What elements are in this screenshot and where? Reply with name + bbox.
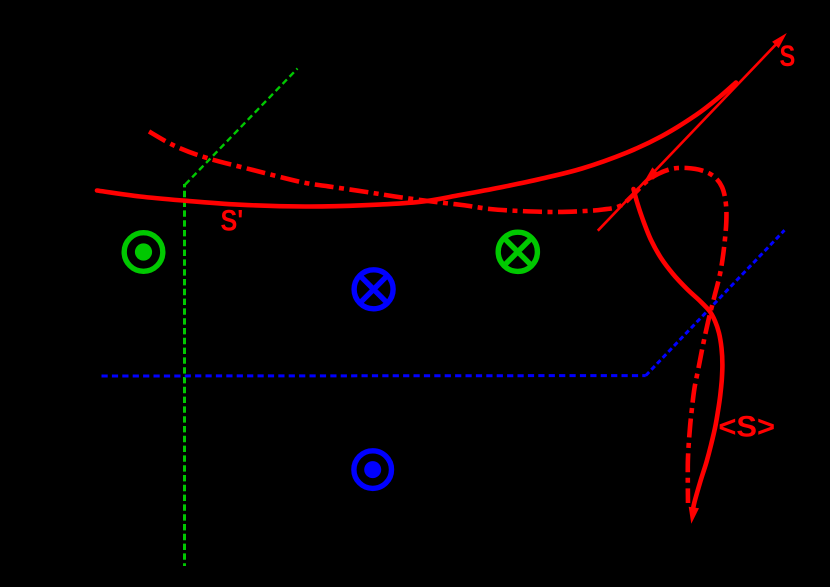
svg-text:S': S' — [221, 204, 244, 238]
svg-text:<S>: <S> — [718, 410, 775, 443]
node: arrowhead at bottom of right red curve — [689, 507, 699, 524]
wire: blue dashed oblique ray — [646, 230, 785, 375]
node: arrowhead on dash-dot curve pointing lower-left — [643, 167, 660, 184]
wire: green dashed oblique ray (incident ray) — [185, 69, 297, 185]
wire: green dashed vertical line — [183, 184, 186, 566]
node: blue circled-dot symbol (field out of page) — [354, 451, 392, 489]
wire: red straight ray line S — [598, 40, 780, 231]
svg-text:S: S — [780, 39, 796, 72]
node: arrowhead of ray S — [772, 33, 787, 48]
wire: red solid curve descending on right — [634, 189, 723, 513]
wire: red solid wavefront S' rising to upper right — [97, 83, 736, 207]
wire: red dash-dot curve (wavefront and loop) — [149, 132, 726, 504]
node: blue circled-cross symbol (field into page) — [354, 270, 393, 309]
wire: blue dashed horizontal line — [102, 374, 646, 377]
node: green circled-dot symbol (field out of page) — [124, 233, 163, 272]
node: green circled-cross symbol (field into page) — [498, 232, 537, 271]
